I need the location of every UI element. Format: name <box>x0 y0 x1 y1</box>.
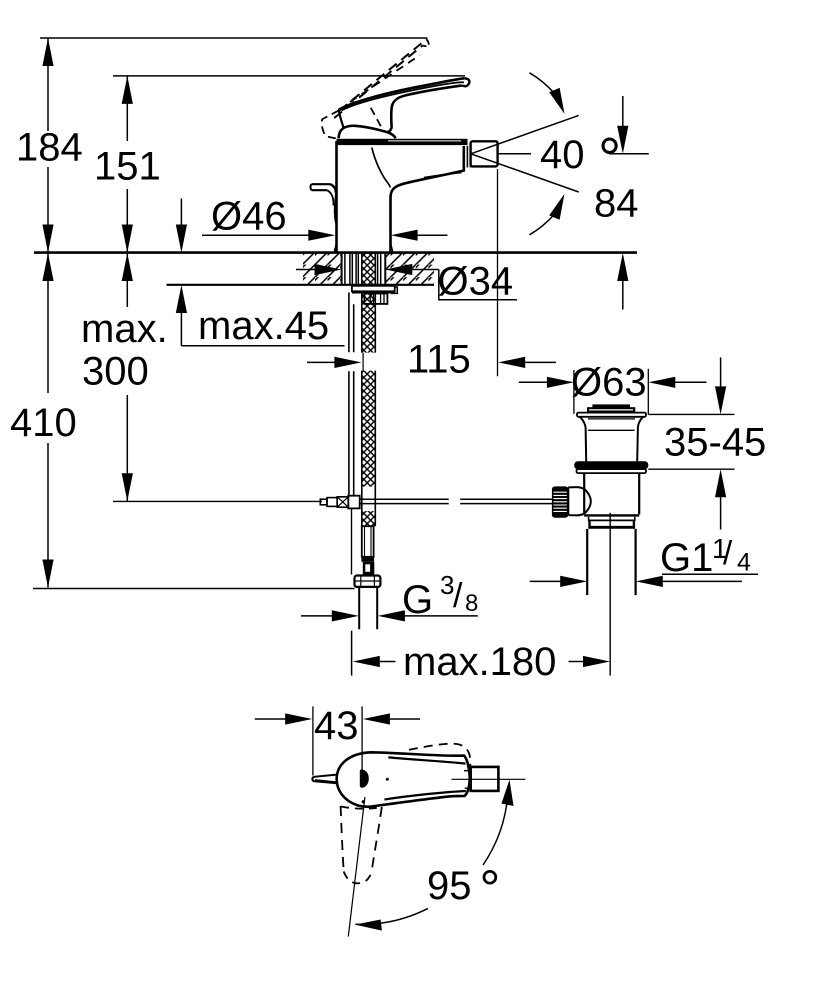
bottom view: 43 extension line right <box>361 706 363 770</box>
arrow 151 top <box>122 76 133 104</box>
aerator block <box>471 141 498 166</box>
G3/8 hex nut <box>355 576 381 587</box>
svg-text:Ø46: Ø46 <box>211 195 287 239</box>
drain collar <box>589 519 635 521</box>
svg-text:184: 184 <box>16 126 83 170</box>
dim Ø46 right arrow <box>391 230 418 241</box>
arrow max300 top <box>122 253 133 281</box>
95 degree arc <box>483 795 508 865</box>
horizontal rod left end cap <box>320 499 327 505</box>
extension line max300 bottom (rod line) <box>113 500 322 502</box>
deck underside line <box>167 284 435 286</box>
drain upper flange <box>577 413 646 417</box>
pop-up hook curve inner <box>327 190 333 205</box>
svg-text:8: 8 <box>465 590 478 617</box>
dim G3/8 left arrow <box>301 615 333 617</box>
svg-text:/: / <box>723 534 733 571</box>
aerator extension vertical line <box>497 169 499 376</box>
pop-up hook curve outer <box>330 184 336 223</box>
svg-text:°: ° <box>480 861 501 919</box>
hose ferrule tube <box>362 526 374 557</box>
arrow 184 bottom <box>42 225 53 253</box>
faucet top band <box>337 139 468 145</box>
extension line top 184 <box>40 37 428 39</box>
lever front edge <box>339 110 344 127</box>
Ø63 left extension line <box>573 370 575 414</box>
arrow 151 bottom <box>122 225 133 253</box>
body inner S-curve <box>372 148 391 188</box>
drain step <box>589 517 635 521</box>
pop-up rod lower thin end <box>351 509 353 575</box>
lever top edge <box>339 78 465 110</box>
handle dome <box>339 126 396 138</box>
84 horizontal line right segment <box>609 153 649 155</box>
dim 115 right arrow <box>498 357 525 368</box>
dim line 151/max300 vertical <box>126 76 128 501</box>
dashed swivel spout right edge <box>371 807 381 873</box>
dim G1 1/4 right arrow <box>636 576 663 587</box>
dim Ø34 left arrow <box>296 269 316 271</box>
pop-up hook bar <box>312 184 331 190</box>
svg-text:35-45: 35-45 <box>664 421 766 465</box>
dim 35-45 upper arrow <box>720 357 722 387</box>
svg-text:4: 4 <box>737 549 751 577</box>
svg-text:300: 300 <box>82 350 149 394</box>
bottom view lever top inner line <box>388 757 465 763</box>
bottom view lever bottom inner line <box>384 791 465 800</box>
drain knob joint block <box>568 487 577 515</box>
pop-up rod mid segment <box>349 371 354 495</box>
bottom view pivot mark <box>360 770 369 788</box>
95 degree arc top arrowhead <box>502 780 514 806</box>
pop-up rod upper segment <box>349 293 354 353</box>
dim 35-45 lower arrow <box>715 469 726 497</box>
drain knurled knob <box>552 486 568 517</box>
Ø34 callout box <box>439 270 517 300</box>
Ø63 right extension line <box>647 369 649 415</box>
dashed swivel spout left edge <box>341 806 344 872</box>
max45 underline <box>181 345 344 347</box>
drain seal ring <box>574 461 648 469</box>
dim max180 left arrow <box>353 656 380 667</box>
G3/8 connection pipe <box>359 587 377 629</box>
40 degree lower ray <box>471 154 579 192</box>
ferrule dark band <box>361 557 374 562</box>
svg-text:Ø34: Ø34 <box>438 260 514 304</box>
bottom view dashed lever outline top right <box>409 744 470 766</box>
mounting hole left wall <box>341 253 343 285</box>
faucet spout right face and underside <box>391 146 464 252</box>
dashed raised lever pivot outline <box>322 110 339 138</box>
svg-text:max.180: max.180 <box>403 640 556 684</box>
extension line 410 bottom <box>33 588 355 590</box>
dim G3/8 right arrow <box>378 610 405 621</box>
deck top line <box>34 251 637 254</box>
bottom view aerator square <box>471 767 499 791</box>
mounting nut <box>364 294 387 304</box>
faucet base flare feet <box>335 244 393 252</box>
svg-text:40: 40 <box>540 133 585 177</box>
aerator joint lines <box>466 146 468 168</box>
dim 84 upper arrow <box>622 96 624 127</box>
lever tip <box>461 78 469 86</box>
svg-text:115: 115 <box>407 338 471 382</box>
arrow 410 top <box>42 253 53 281</box>
lever inner highlight line <box>342 82 464 110</box>
dim 43 right arrow <box>363 713 390 724</box>
svg-text:Ø63: Ø63 <box>571 361 647 405</box>
braided hose segment 1 <box>362 253 376 353</box>
swivel spout centerline <box>348 797 365 937</box>
flange right step <box>391 287 397 293</box>
shank lines in hole <box>344 253 346 285</box>
max45 lower arrow <box>176 285 187 313</box>
dashed raised lever tip <box>423 39 429 47</box>
95 degree arc bottom arrowhead <box>355 920 382 931</box>
svg-text:95: 95 <box>427 864 472 908</box>
arrow 184 top <box>42 38 53 66</box>
dim line 184/410 vertical <box>47 38 49 588</box>
aerator square connectors <box>464 771 471 789</box>
svg-text:/: / <box>453 577 463 615</box>
40 degree lower arc with arrowhead <box>530 214 555 235</box>
84 horizontal line left segment <box>498 153 531 155</box>
drain neck curves <box>580 417 586 462</box>
svg-text:G1: G1 <box>660 536 713 580</box>
rod clamp block <box>348 496 359 509</box>
arrow 410 bottom <box>42 560 53 588</box>
dashed swivel spout top joint <box>341 807 382 809</box>
dim Ø34 right arrow <box>385 264 412 275</box>
svg-text:410: 410 <box>10 401 77 445</box>
faucet centerline in hose break <box>362 353 364 371</box>
G1 1/4 underline <box>662 573 758 575</box>
bottom view pop-up tab <box>312 775 337 784</box>
mounting flange under deck <box>352 286 395 292</box>
spout underside inner line <box>424 173 462 178</box>
faucet body left edge <box>335 141 338 252</box>
connector upper nut with window <box>363 562 375 575</box>
drain lower body <box>584 473 639 514</box>
dim 35-45 bottom extension line <box>648 468 734 470</box>
arrow max300 bottom <box>122 473 133 501</box>
40 degree upper arc with arrowhead <box>530 73 555 94</box>
braided hose segment 2 <box>362 371 376 487</box>
bottom view horizontal centerline <box>452 778 526 780</box>
dim 84 lower arrow <box>617 253 628 281</box>
mounting hole right wall <box>384 253 386 285</box>
dim 35-45 top extension line <box>648 413 734 415</box>
svg-text:G: G <box>402 578 433 622</box>
dashed raised lever neck line <box>371 108 382 128</box>
joint block bulge <box>578 487 591 515</box>
extension line top 151 <box>113 75 465 77</box>
dim 43 left arrow <box>255 718 286 720</box>
dim Ø46 left arrow <box>202 234 309 236</box>
svg-text:151: 151 <box>94 145 161 189</box>
horizontal rod knob <box>327 498 337 507</box>
bottom view: 43 extension line left <box>312 706 314 775</box>
dashed raised lever inner line <box>350 55 420 102</box>
drain cap top bar <box>592 404 630 407</box>
dim Ø63 left arrow <box>519 381 548 383</box>
drain tail pipe <box>587 529 635 595</box>
max45 upper arrow <box>180 199 182 227</box>
bottom view body outline <box>337 752 470 806</box>
lever underside and neck <box>388 86 462 133</box>
deck hatch left of hole <box>303 254 342 285</box>
dim max180 right arrow <box>569 661 585 663</box>
svg-text:max.: max. <box>81 307 168 351</box>
drain cap lower bar <box>587 407 635 412</box>
dashed raised lever underside <box>334 46 422 119</box>
dashed raised lever top edge <box>339 39 426 110</box>
horizontal rod left span <box>360 499 449 503</box>
svg-text:max.45: max.45 <box>198 304 329 348</box>
drain seal lower lip <box>577 469 647 473</box>
dim Ø63 right arrow <box>648 377 675 388</box>
dashed swivel spout bottom cap <box>344 872 372 884</box>
deck hatch right of hole <box>385 254 434 285</box>
40 degree upper ray <box>471 115 579 153</box>
dim max180 left tick <box>351 631 353 676</box>
braided hose segment 3 <box>362 511 376 526</box>
horizontal rod right span <box>460 499 552 503</box>
svg-text:43: 43 <box>314 704 359 748</box>
bottom view small dots <box>362 800 365 803</box>
drain centerline <box>609 513 611 676</box>
svg-text:84: 84 <box>594 182 639 226</box>
dim 115 left arrow <box>307 361 335 363</box>
dim G1 1/4 left arrow <box>530 580 562 582</box>
horizontal rod knurled block <box>337 497 348 507</box>
